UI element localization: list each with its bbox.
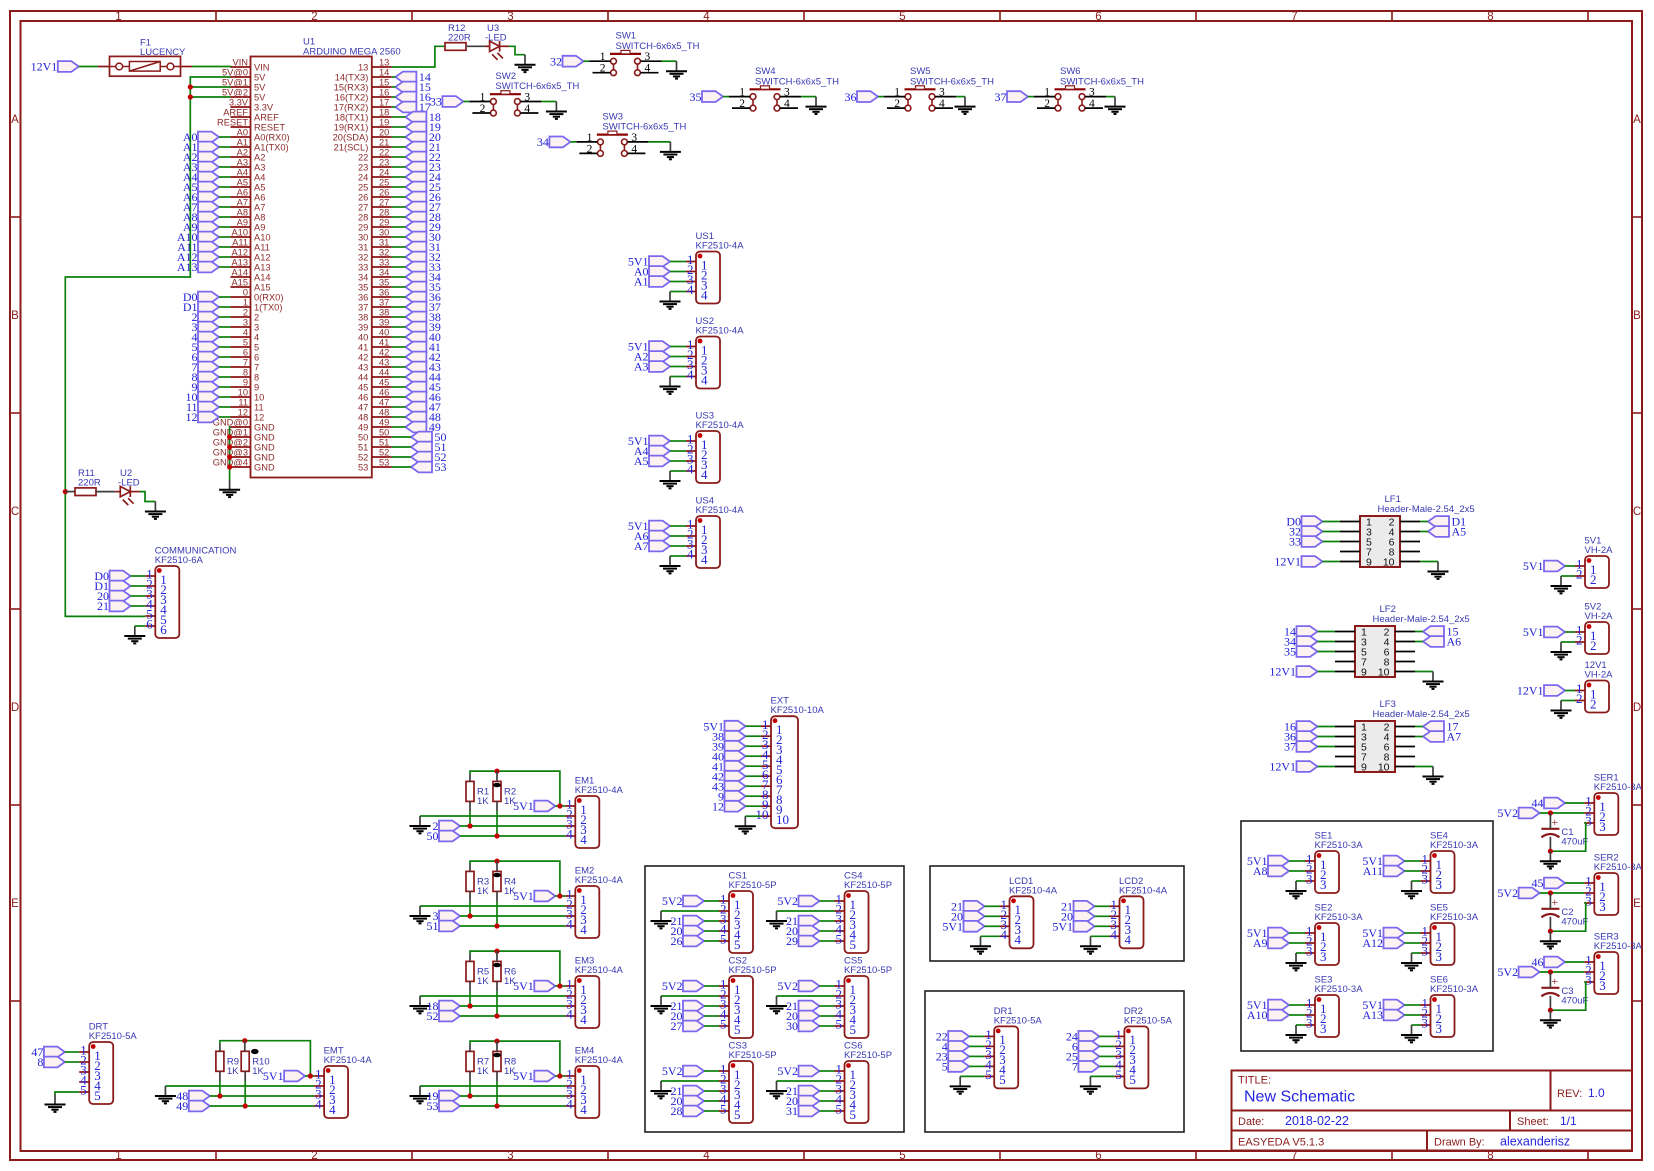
wire [1565,882,1584,884]
ground (5V1) [1551,576,1572,593]
wire [219,176,231,178]
net flag 20 (LCD1) [964,911,985,922]
box CS group [645,866,904,1132]
svg-text:10: 10 [254,393,264,403]
wire 19 [460,1095,565,1097]
net flag 5V2 (CS3) [683,1066,704,1077]
net flag 34 (SW3 pin1) [549,137,570,148]
net flag 5V1 [1544,627,1565,638]
svg-text:A3: A3 [237,158,248,168]
svg-text:KF2510-4A: KF2510-4A [324,1055,373,1066]
svg-text:VH-2A: VH-2A [1585,545,1614,556]
svg-text:37: 37 [379,298,389,308]
junction EM4 pin1 [557,1073,562,1078]
svg-text:6: 6 [254,353,259,363]
svg-text:A9: A9 [254,223,265,233]
net flag A11 (SE4) [1384,866,1405,877]
wire R9 to pin3 net [219,1081,221,1096]
net flag 20 [110,591,131,602]
junction EM3 pin1 [557,983,562,988]
svg-text:27: 27 [358,203,368,213]
svg-text:11: 11 [254,403,264,413]
wire [392,346,406,348]
wire [1289,942,1305,944]
svg-text:30: 30 [358,233,368,243]
wire [55,1092,79,1095]
net flag D1 [1428,516,1449,527]
net flag D0 [110,571,131,582]
svg-text:12V1: 12V1 [1274,555,1301,569]
ground (CS1) [651,911,672,928]
svg-text:7: 7 [1291,1150,1297,1162]
wire 5V@1 [190,86,230,88]
svg-text:5V1: 5V1 [513,799,534,813]
junction R3/pin3 [467,913,472,918]
svg-text:52: 52 [427,1009,439,1023]
net flag 45 (SER2 pin1) [1544,878,1565,889]
wire SE3 pin3 to ground [1296,1024,1305,1026]
wire 5V bus from U1 5V pins [65,77,230,616]
svg-text:39: 39 [379,318,389,328]
junction C3 bottom [1548,1008,1553,1013]
svg-text:47: 47 [379,398,389,408]
svg-text:KF2510-3A: KF2510-3A [1430,912,1479,923]
net flag 29 (CS4) [799,936,820,947]
svg-text:14(TX3): 14(TX3) [335,73,369,83]
wire SW3 pin3 to ground [648,141,670,143]
svg-text:4: 4 [784,98,790,110]
svg-text:8: 8 [1487,11,1493,23]
svg-text:KF2510-3A: KF2510-3A [1594,862,1643,873]
wire 32 to SW1 [584,60,590,62]
wire DR1 pin5 to ground [960,1075,984,1077]
wire [392,396,406,398]
wire [1565,690,1575,692]
net flag 44 [405,372,426,383]
svg-text:52: 52 [358,453,368,463]
wire [1405,932,1421,934]
net flag 4 [198,332,219,343]
net flag A8 (SE1) [1268,866,1289,877]
wire [1095,905,1110,907]
svg-text:28: 28 [379,208,389,218]
svg-text:GND: GND [254,453,275,463]
net flag 50 (EM1 pin4) [439,831,460,842]
svg-text:3.3V: 3.3V [229,98,249,108]
net flag A6 [1423,636,1444,647]
svg-text:KF2510-5P: KF2510-5P [729,1050,777,1061]
wire EM1 pin2 to ground [420,815,565,817]
junction R6/pin4 [494,1013,499,1018]
svg-text:5: 5 [985,1067,992,1082]
wire [1565,631,1575,633]
wire SE4 pin3 to ground [1412,880,1421,882]
net flag 21 (LCD2) [1074,901,1095,912]
svg-text:3: 3 [1422,1016,1429,1031]
wire [820,1015,835,1017]
net flag 25 (DR2) [1078,1051,1099,1062]
svg-text:5V1: 5V1 [513,979,534,993]
net flag 2 [198,312,219,323]
ellipse mark near R10 [251,1049,259,1054]
svg-text:1K: 1K [504,796,516,807]
svg-text:6: 6 [1095,11,1101,23]
svg-text:KF2510-5P: KF2510-5P [844,880,892,891]
svg-text:2: 2 [587,143,593,155]
junction EM3 top wire [494,949,499,954]
wire CS2 pin2 to ground [661,995,719,997]
svg-text:8: 8 [254,373,259,383]
wire [670,366,686,368]
ground (SE6) [1401,1025,1422,1042]
svg-text:12V1: 12V1 [31,60,58,74]
svg-text:42: 42 [379,348,389,358]
svg-text:New Schematic: New Schematic [1244,1089,1355,1106]
net flag 41 [405,342,426,353]
net flag 35 (SW4 pin1) [702,91,723,102]
svg-text:4: 4 [687,367,694,382]
wire [1420,521,1428,523]
wire R3 to pin3 net [469,901,471,916]
net flag 4 (DR1) [948,1041,969,1052]
net flag 5V1 [725,721,746,732]
svg-text:53: 53 [358,463,368,473]
net flag 22 [405,152,426,163]
junction GND@1 [227,434,232,439]
svg-text:21(SCL): 21(SCL) [334,143,369,153]
svg-text:1: 1 [115,11,121,23]
svg-text:5: 5 [720,1102,727,1117]
U1 right pins [333,58,392,473]
net flag 5 (DR1) [948,1061,969,1072]
connector DR1 KF2510-5A [984,1026,1018,1088]
wire [670,281,686,283]
svg-text:1: 1 [1044,87,1050,99]
wire SW5 pin3 to ground [956,96,965,98]
svg-text:5V2: 5V2 [662,979,683,993]
svg-text:52: 52 [379,448,389,458]
resistor R3 1K [466,871,474,891]
ground (CS6) [766,1081,787,1098]
wire [392,126,406,128]
net flag 42 [725,771,746,782]
net flag 5V1 [649,521,670,532]
net flag 21 (CS6) [799,1086,820,1097]
wire EM2 pin2 to ground [420,905,565,907]
svg-text:40: 40 [379,328,389,338]
net flag 8 [198,372,219,383]
wire [219,266,231,268]
svg-text:4: 4 [939,98,945,110]
net flag 12V1 [1544,685,1565,696]
wire [820,1100,835,1102]
net flag A5 [198,182,219,193]
wire SER1 pin3 to C1 [1550,823,1585,851]
svg-text:28: 28 [358,213,368,223]
svg-text:RESET: RESET [254,123,285,133]
net flag 5V1 (SE6) [1384,1000,1405,1011]
svg-text:35: 35 [1284,645,1296,659]
wire 5V1 pin2 to ground [1561,575,1575,577]
svg-text:13: 13 [379,58,389,68]
net flag A4 [198,172,219,183]
svg-text:A2: A2 [237,148,248,158]
wire 2 [460,825,565,827]
net flag 11 [198,402,219,413]
svg-text:21: 21 [379,138,389,148]
svg-text:1K: 1K [252,1066,264,1077]
svg-text:KF2510-4A: KF2510-4A [575,875,624,886]
svg-text:5V1: 5V1 [942,920,963,934]
connector 12V1 VH-2A [1575,681,1609,713]
net flag 16 [1297,721,1318,732]
net flag 28 [405,212,426,223]
svg-text:5V1: 5V1 [513,889,534,903]
svg-text:10: 10 [1378,667,1390,679]
wire [1420,531,1428,533]
svg-text:40: 40 [358,333,368,343]
switch SW5 SWITCH-6x6x5_TH [884,66,994,111]
svg-text:30: 30 [379,228,389,238]
net flag 21 (CS5) [799,1001,820,1012]
net flag 32 (SW1 pin1) [563,56,584,67]
wire [746,755,762,757]
net flag 17 [1423,721,1444,732]
svg-text:A12: A12 [1362,936,1383,950]
svg-text:23: 23 [379,158,389,168]
svg-text:1: 1 [243,298,248,308]
svg-text:3: 3 [1599,819,1606,834]
svg-text:4: 4 [580,832,587,847]
ground (U2) [145,502,166,519]
svg-text:14: 14 [379,68,389,78]
net flag 33 [1302,536,1323,547]
svg-text:B: B [1633,310,1641,322]
net flag 12 [198,412,219,423]
svg-text:Header-Male-2.54_2x5: Header-Male-2.54_2x5 [1373,614,1470,625]
svg-text:3: 3 [254,323,259,333]
junction R10 top [242,1038,247,1043]
svg-text:5V@0: 5V@0 [222,68,248,78]
wire [392,156,406,158]
net flag 48 (EMT pin3) [189,1091,210,1102]
svg-text:470uF: 470uF [1561,995,1588,1006]
svg-text:45: 45 [379,378,389,388]
svg-text:alexanderisz: alexanderisz [1500,1135,1570,1149]
switch SW6 SWITCH-6x6x5_TH [1034,66,1144,111]
svg-text:29: 29 [786,934,798,948]
svg-text:1K: 1K [477,886,489,897]
svg-text:29: 29 [379,218,389,228]
net flag 32 [1302,526,1323,537]
svg-text:13: 13 [358,63,368,73]
wire SW1 pin3 to ground [662,60,677,62]
svg-text:1: 1 [587,132,593,144]
svg-text:12V1: 12V1 [1269,665,1296,679]
net flag 20 (CS1) [683,926,704,937]
wire [392,96,396,98]
net flag 46 [405,392,426,403]
connector DR2 KF2510-5A [1114,1026,1148,1088]
svg-text:A6: A6 [237,188,248,198]
wire GND@1 [229,436,232,438]
net flag 14 [1297,626,1318,637]
svg-text:6: 6 [160,622,167,637]
svg-text:4: 4 [566,827,573,842]
svg-text:4: 4 [243,328,248,338]
svg-text:8: 8 [1487,1150,1493,1162]
junction R9/pin3 [217,1093,222,1098]
svg-text:A: A [1633,114,1641,126]
svg-text:1K: 1K [477,1066,489,1077]
svg-text:A11: A11 [232,238,248,248]
junction C2 top [1548,890,1553,895]
svg-text:3: 3 [1089,87,1095,99]
svg-text:48: 48 [358,413,368,423]
svg-text:4: 4 [315,1097,322,1112]
svg-text:5: 5 [942,1060,948,1074]
svg-text:51: 51 [358,443,368,453]
net flag A7 [1423,731,1444,742]
wire 35 to SW4 [723,96,729,98]
svg-text:5V2: 5V2 [1497,886,1518,900]
svg-text:A9: A9 [237,218,248,228]
svg-text:5: 5 [734,1107,741,1122]
wire [820,920,835,922]
wire [392,86,396,88]
net flag 2 (EM1 pin3) [439,821,460,832]
svg-text:EASYEDA V5.1.3: EASYEDA V5.1.3 [1238,1137,1324,1149]
wire [1099,1055,1114,1057]
wire [1095,925,1110,927]
net flag 5V1 (SE4) [1384,856,1405,867]
junction R4/pin4 [494,923,499,928]
box LCD group [930,866,1184,961]
svg-text:KF2510-3A: KF2510-3A [1315,912,1364,923]
net flag 30 [405,232,426,243]
svg-text:4: 4 [254,333,259,343]
svg-text:KF2510-5A: KF2510-5A [994,1015,1043,1026]
svg-text:49: 49 [379,418,389,428]
net flag 34 [405,272,426,283]
svg-text:5V1: 5V1 [1052,920,1073,934]
svg-text:4: 4 [687,462,694,477]
wire [1415,641,1423,643]
wire [746,735,762,737]
svg-text:19(RX1): 19(RX1) [334,123,369,133]
wire [820,985,835,987]
wire [392,186,406,188]
net flag A1 [198,142,219,153]
svg-text:3: 3 [524,92,530,104]
switch SW3 SWITCH-6x6x5_TH [576,111,686,156]
net flag 18 (EM3 pin3) [439,1001,460,1012]
net flag 26 (CS1) [683,936,704,947]
svg-text:5: 5 [94,1088,101,1103]
wire [1323,521,1341,523]
svg-text:4: 4 [687,282,694,297]
svg-text:220R: 220R [78,478,101,489]
net flag 31 [405,242,426,253]
wire 53 [460,1105,565,1107]
svg-text:17: 17 [379,98,389,108]
ground (EMT) [155,1086,176,1103]
wire SW4 pin3 to ground [801,96,816,98]
wire U2 to ground [140,492,155,502]
svg-text:A1(TX0): A1(TX0) [254,143,289,153]
svg-text:3: 3 [939,87,945,99]
svg-text:3: 3 [1422,944,1429,959]
svg-text:A2: A2 [254,153,265,163]
svg-text:2: 2 [1590,696,1597,711]
net flag 12V1 [58,61,79,72]
wire 37 to SW6 [1028,96,1034,98]
svg-text:A3: A3 [634,360,649,374]
svg-text:2: 2 [1044,98,1050,110]
wire LF3 pin10 to ground [1415,766,1433,768]
wire [392,276,406,278]
net flag 20 (CS2) [683,1011,704,1022]
junction R2/pin4 [494,833,499,838]
wire R6 to pin4 net [496,991,498,1016]
wire 52 [460,1015,565,1017]
net flag 20 (LCD2) [1074,911,1095,922]
wire [392,446,411,448]
connector SE6 KF2510-3A [1421,995,1455,1037]
svg-text:5V2: 5V2 [662,1064,683,1078]
net flag 27 (CS2) [683,1021,704,1032]
wire [1405,1004,1421,1006]
svg-text:12: 12 [238,408,248,418]
net flag 20 (CS6) [799,1096,820,1107]
svg-text:3: 3 [1320,949,1327,964]
net flag 50 [411,432,432,443]
wire [219,356,231,358]
net flag 18 [405,112,426,123]
svg-text:GND: GND [254,423,275,433]
svg-text:8: 8 [243,368,248,378]
wire [392,146,406,148]
svg-text:46: 46 [379,388,389,398]
svg-text:37: 37 [1284,740,1296,754]
net flag A9 (SE2) [1268,938,1289,949]
svg-text:5: 5 [720,932,727,947]
frame row ticks and letters [10,114,1642,1001]
net flag 8 (DRT) [44,1057,65,1068]
svg-text:38: 38 [358,313,368,323]
wire [1415,726,1423,728]
svg-text:1.0: 1.0 [1588,1086,1605,1100]
net flag 37 [1297,741,1318,752]
wire [219,296,231,298]
svg-text:A: A [11,114,19,126]
net flag 19 [405,122,426,133]
wire [704,1015,719,1017]
wire [820,1025,835,1027]
net flag 21 (CS1) [683,916,704,927]
net flag 38 [405,312,426,323]
connector US3 KF2510-4A [686,431,720,483]
svg-text:KF2510-3A: KF2510-3A [1430,984,1479,995]
svg-text:12V1: 12V1 [1269,760,1296,774]
wire GND@2 [229,446,232,448]
svg-text:A14: A14 [231,268,248,278]
svg-text:10: 10 [776,812,789,827]
svg-text:24: 24 [379,168,389,178]
wire [969,1055,984,1057]
svg-text:41: 41 [379,338,389,348]
wire [219,196,231,198]
